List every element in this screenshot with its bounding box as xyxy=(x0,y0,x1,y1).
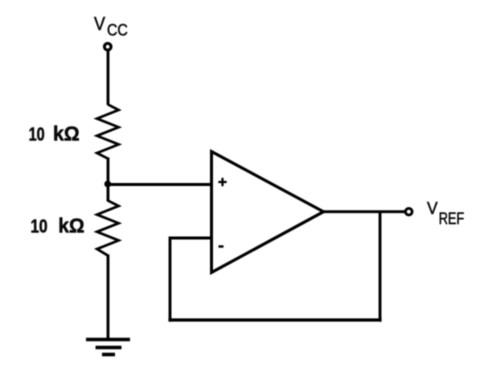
resistor R2 xyxy=(97,201,119,256)
wire op-amp output to VREF terminal xyxy=(322,210,406,213)
wire feedback: output down xyxy=(379,212,382,322)
svg-text:kΩ: kΩ xyxy=(53,123,80,145)
pin - (inverting input) xyxy=(219,245,224,247)
wire R2 to ground xyxy=(107,255,110,341)
svg-text:REF: REF xyxy=(439,210,465,228)
wire R1 to node A xyxy=(107,158,110,202)
wire node A to op-amp + input xyxy=(107,183,213,186)
svg-text:10: 10 xyxy=(29,123,45,144)
terminal VCC xyxy=(104,43,111,50)
svg-text:V: V xyxy=(94,13,106,34)
op-amp U1 xyxy=(212,152,324,273)
svg-text:10: 10 xyxy=(31,216,48,237)
node VREF label xyxy=(427,198,464,228)
label R1 value 10 kΩ xyxy=(29,123,80,145)
svg-text:V: V xyxy=(427,198,438,218)
svg-text:CC: CC xyxy=(107,21,128,40)
resistor R1 xyxy=(97,105,119,159)
svg-text:kΩ: kΩ xyxy=(58,216,84,238)
wire feedback: left vertical up xyxy=(169,237,172,322)
wire feedback: bottom horizontal xyxy=(168,318,381,321)
terminal VREF xyxy=(406,208,413,215)
node A junction dot xyxy=(104,181,111,188)
ground xyxy=(86,340,130,355)
node VCC label xyxy=(94,13,128,40)
wire feedback to op-amp - input xyxy=(169,237,213,240)
pin + (non-inverting input) xyxy=(218,178,226,186)
label R2 value 10 kΩ xyxy=(31,216,85,238)
wire VCC to R1 xyxy=(107,51,110,106)
